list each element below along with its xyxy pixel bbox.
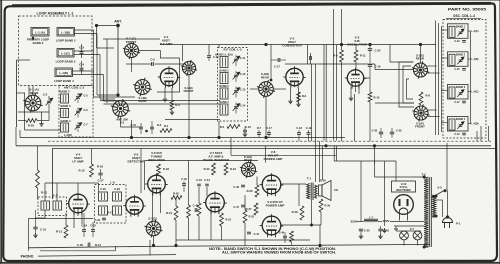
svg-text:C-27: C-27 (97, 179, 104, 183)
wire S-1E to osc coil (428, 65, 437, 67)
svg-text:C-46: C-46 (233, 185, 239, 189)
trimmer C-5 (76, 96, 80, 98)
svg-text:I.F AMP: I.F AMP (72, 160, 83, 164)
svg-text:R-30: R-30 (325, 204, 331, 208)
coil L-5 cells (41, 201, 50, 210)
svg-text:R-12: R-12 (41, 191, 48, 195)
svg-text:R-4: R-4 (164, 124, 169, 128)
switch wafer S-1(B) rear (135, 80, 150, 95)
coil L-1(D) (55, 68, 73, 77)
svg-text:R-27: R-27 (246, 207, 252, 211)
transformer T-1 secondary (315, 185, 317, 198)
capacitor C-17 (277, 58, 279, 62)
tube V-1 (RF amplifier) (160, 68, 177, 85)
coil L-3(D) (220, 104, 228, 115)
svg-text:BAND 3: BAND 3 (456, 86, 466, 89)
svg-text:R-9: R-9 (333, 54, 338, 58)
svg-text:BAND 2: BAND 2 (33, 41, 44, 45)
svg-text:PHASE INVERTER: PHASE INVERTER (203, 158, 230, 162)
capacitor C-18 (309, 56, 311, 60)
junction dots on buses (117, 94, 119, 96)
switch wafer S-1(A) (25, 95, 41, 111)
coil L-1(C) (57, 49, 74, 58)
power plug P-1 (443, 218, 453, 223)
wire 230V run (394, 225, 424, 227)
wire V-2 grid line (285, 63, 375, 65)
trimmer C-14 (234, 106, 238, 108)
pilot lamp PL-1 (400, 231, 409, 240)
svg-text:R-25: R-25 (28, 124, 35, 128)
resistor R-9 (340, 50, 344, 62)
wire S-1A bottom runs (18, 111, 49, 113)
svg-text:C-29: C-29 (454, 133, 460, 136)
svg-text:R-5: R-5 (220, 125, 225, 129)
tube V-8 (power amp) (262, 175, 281, 194)
svg-text:D-7: D-7 (410, 228, 415, 231)
svg-text:R-26: R-26 (247, 189, 253, 193)
svg-text:L-1(B): L-1(B) (61, 30, 70, 34)
svg-text:BAND 4: BAND 4 (456, 118, 466, 121)
svg-text:R-3: R-3 (175, 103, 180, 107)
resistor R-23 (212, 163, 216, 175)
tube V-6 (tuning eye) (148, 175, 166, 193)
svg-text:REAR: REAR (139, 99, 147, 103)
svg-text:CONVERTER: CONVERTER (282, 44, 302, 48)
if stage box (53, 149, 498, 200)
wire bus to power feed run (230, 138, 232, 156)
resistor R-27 (254, 203, 258, 215)
svg-text:L-1 (A): L-1 (A) (35, 30, 45, 34)
svg-text:C-32: C-32 (95, 219, 101, 222)
wire phono line (38, 255, 176, 257)
svg-text:C-18: C-18 (296, 126, 302, 130)
capacitor C-46 (241, 184, 245, 186)
resistor R-15 (90, 164, 94, 177)
switch wafer S-1(H) (242, 163, 256, 177)
wire V-7 bottom (210, 212, 212, 240)
wire B+ verticals (319, 141, 321, 182)
trimmer C-12 (234, 74, 238, 76)
wire converter B+ verticals (311, 64, 313, 141)
svg-text:FRONT: FRONT (415, 125, 425, 129)
wire osc coil feed verticals (435, 21, 437, 136)
tube V-7 (AF amp / phase inverter) (206, 193, 225, 212)
tube V-9 (power amp) (262, 216, 281, 235)
wire osc coupling (364, 77, 370, 79)
switch wafer S-1(F) (414, 106, 428, 120)
resistor R-8 (419, 92, 423, 105)
wire antenna feed (96, 26, 98, 49)
svg-text:POWER AMP: POWER AMP (266, 203, 285, 207)
svg-text:R.F COIL L-3: R.F COIL L-3 (223, 48, 241, 52)
capacitors on right mid bus (379, 131, 383, 133)
switch wafer S-1(G) lower (146, 221, 161, 236)
resistor R-20 (171, 196, 182, 200)
wire detector drops (140, 149, 142, 194)
svg-text:BAND 3: BAND 3 (60, 104, 71, 108)
svg-text:C-6: C-6 (83, 108, 88, 112)
node bus verticals from loop (93, 30, 95, 97)
svg-text:L-2(D): L-2(D) (64, 133, 72, 137)
svg-text:C-29: C-29 (114, 187, 120, 191)
resistor R-5 below rf box (227, 125, 240, 129)
svg-text:CH: CH (334, 188, 338, 192)
svg-text:C-36: C-36 (77, 243, 83, 247)
resistor R-12 left (36, 170, 40, 188)
svg-text:BAND 4: BAND 4 (219, 101, 229, 104)
coil L-4(C) band 3 cell (448, 85, 469, 100)
tube V-10 (rectifier) (394, 195, 414, 215)
coil L-3(C) (220, 88, 228, 99)
svg-text:C-31: C-31 (40, 228, 47, 232)
svg-text:DETECTOR: DETECTOR (128, 160, 146, 164)
resistor below C-44 (206, 187, 208, 196)
trimmer C-11 (234, 58, 238, 60)
svg-text:BAND 1 L-3(A): BAND 1 L-3(A) (215, 53, 232, 56)
svg-text:C-41: C-41 (254, 232, 260, 236)
svg-text:BAND 2: BAND 2 (219, 69, 229, 72)
svg-text:S-3: S-3 (437, 186, 442, 190)
tube V-4 (IF amplifier) (69, 194, 88, 213)
switch wafer S-1(C) (125, 44, 139, 58)
wire mid bus upper (20, 137, 345, 139)
svg-text:R-28: R-28 (292, 210, 298, 214)
svg-text:C-5: C-5 (83, 94, 88, 98)
switch S-3 (434, 191, 445, 197)
wire V-4 pins down (73, 212, 75, 228)
pilot lamp PL-2 (413, 231, 422, 240)
coil L-4(D) band 4 cell (448, 117, 469, 132)
svg-text:L-4(D): L-4(D) (472, 123, 479, 126)
coil L-2(A) (61, 94, 69, 103)
svg-text:C-25: C-25 (454, 68, 460, 71)
svg-text:R-29: R-29 (320, 179, 326, 183)
resistor R-26 (255, 185, 259, 197)
svg-text:230V: 230V (382, 219, 389, 223)
capacitor C-41 (247, 231, 251, 233)
transformer T-2 primary winding (424, 177, 428, 247)
svg-text:C-12: C-12 (240, 72, 246, 76)
if transformer L-6 dashed box (95, 185, 127, 224)
svg-text:C-17: C-17 (266, 126, 272, 130)
svg-text:BAND 3: BAND 3 (219, 85, 229, 88)
wire mid bus left drop (15, 127, 17, 146)
svg-text:R-21: R-21 (226, 218, 232, 222)
resistor R-13 (64, 225, 68, 238)
capacitor C-20 (368, 48, 372, 50)
svg-text:REAR: REAR (30, 91, 39, 95)
wire loop box to S-1A (32, 86, 34, 96)
svg-text:250V: 250V (350, 220, 357, 224)
coil L-6 primary (99, 192, 108, 201)
wire V-4 plate circuit (45, 182, 99, 184)
component cluster mid C-14/C-15 (139, 126, 143, 128)
switch wafer S-1 front upper (182, 61, 195, 74)
resistor R-25 (26, 119, 37, 123)
tube V-5 (detector) (126, 197, 143, 214)
svg-text:T-1: T-1 (307, 177, 312, 181)
svg-text:R-14: R-14 (95, 243, 101, 247)
svg-text:C-27: C-27 (454, 101, 460, 104)
scan edge shading left (0, 0, 2, 264)
trimmer C-6 (76, 110, 80, 112)
wire band taps to rf coil (100, 100, 220, 102)
wire S-1C to V-1 (139, 50, 161, 52)
switch wafer S-1(D) (259, 82, 274, 97)
tube V-10 label box (392, 181, 416, 192)
svg-text:R-20: R-20 (173, 192, 179, 196)
wire V-6 down (152, 193, 154, 221)
wire right edge drop (488, 126, 490, 141)
transformer T-1 core (310, 183, 312, 201)
wire cluster above S-2 (94, 96, 114, 98)
ground S-1A (41, 122, 43, 124)
wire S-2 bottom link (120, 117, 122, 128)
svg-text:BAND 2: BAND 2 (59, 89, 70, 93)
wire lamps bottom (403, 240, 405, 246)
wire osc cells right bus (470, 31, 472, 124)
wire V-2 cathode (290, 88, 292, 99)
svg-text:RECTIFIER: RECTIFIER (396, 188, 410, 192)
svg-text:ALL SWITCH WAFERS VIEWED FROM: ALL SWITCH WAFERS VIEWED FROM KNOB END O… (222, 251, 336, 255)
svg-text:C-16: C-16 (245, 125, 251, 129)
capacitor C-19 (368, 64, 372, 66)
wire power feed from bus (333, 146, 335, 161)
svg-text:ANT.: ANT. (114, 20, 122, 24)
svg-text:R-13: R-13 (56, 230, 63, 234)
wire avc return (29, 218, 94, 220)
capacitor C-47 (241, 204, 245, 206)
resistor R-10 (368, 92, 372, 102)
svg-text:C-48: C-48 (372, 130, 378, 133)
svg-text:C-47: C-47 (233, 205, 239, 209)
svg-text:R-8: R-8 (426, 94, 431, 98)
wire V-1 plate loop (157, 58, 180, 92)
wire T-1 bottom lead (311, 200, 313, 225)
wire S-1A drop (24, 93, 26, 130)
wire T-2 top feed (375, 176, 425, 178)
coil L-1(B) (57, 28, 75, 37)
svg-text:FRONT: FRONT (184, 89, 194, 93)
svg-text:R-24: R-24 (230, 167, 236, 171)
coil L-4(B) band 2 cell (448, 52, 469, 67)
svg-text:BAND 2: BAND 2 (456, 53, 466, 56)
svg-text:LOOP BAND 3: LOOP BAND 3 (56, 60, 76, 64)
resistor R-18 (157, 164, 161, 175)
wire upper run y39 (103, 38, 160, 40)
svg-text:OSC. COIL L-4: OSC. COIL L-4 (453, 14, 475, 18)
wire drops to mid bus (164, 110, 166, 138)
capacitor C-9 (151, 62, 153, 66)
capacitor C-10 (208, 45, 210, 56)
svg-text:L-4(B): L-4(B) (472, 58, 479, 61)
wire drop x182 (182, 45, 184, 62)
wire right column drops (446, 143, 448, 191)
svg-text:REAR: REAR (416, 57, 424, 61)
wire phono up right (149, 240, 151, 256)
wire bottom bus (29, 244, 431, 247)
svg-text:R-23: R-23 (204, 167, 210, 171)
trimmer C-13 (234, 90, 238, 92)
wire v1 to rf box bottom (165, 119, 220, 121)
svg-text:P-1: P-1 (456, 222, 461, 226)
capacitor C-51 (378, 228, 382, 230)
wire S-1E top (420, 45, 422, 64)
border frame top thick edge (12, 3, 491, 5)
wire mid bus dashed (48, 140, 491, 142)
wire L-1(A) pin (32, 36, 34, 39)
if transformer L-5 dashed box (38, 197, 67, 216)
tube V-2 (converter) (286, 68, 303, 85)
svg-text:S-2: S-2 (120, 121, 125, 125)
switch wafer S-2 (ant sw) (113, 101, 129, 117)
rf coil L-3 dashed box (218, 48, 248, 122)
svg-text:C-19: C-19 (306, 126, 312, 130)
capacitor C-31 (33, 226, 37, 228)
svg-text:C-13: C-13 (240, 88, 246, 92)
wire push-pull vertical (298, 184, 300, 206)
svg-text:POWER AMP: POWER AMP (264, 157, 283, 161)
wire bottom bus2 (176, 239, 310, 241)
osc coil L-4 dashed box (443, 20, 486, 139)
wire V-8 V-9 plates (281, 183, 306, 185)
wire mid verticals long (323, 45, 325, 141)
wire osc cells left taps (442, 29, 448, 31)
svg-text:BAND 4: BAND 4 (60, 119, 71, 123)
scan edge shading bottom (0, 262, 500, 264)
coil L-1(A) (31, 28, 49, 37)
resistor R-21 (220, 213, 224, 226)
svg-text:R-15: R-15 (78, 169, 85, 173)
wire feed drops (360, 161, 362, 222)
transformer T-1 primary (307, 184, 310, 200)
wire plug feed (447, 191, 449, 218)
resistor R-24 (224, 163, 228, 175)
wire V-3 cathode (350, 87, 352, 97)
trimmer C-7 (76, 125, 80, 127)
svg-text:REAR: REAR (261, 75, 269, 79)
svg-text:C-14: C-14 (240, 104, 246, 108)
svg-text:INDICATOR: INDICATOR (148, 158, 165, 162)
wire speaker leads (316, 186, 319, 188)
loop assembly L-1 dashed box (19, 16, 93, 86)
svg-text:C-45: C-45 (193, 204, 199, 208)
svg-text:R-17: R-17 (107, 211, 113, 215)
svg-text:C-7: C-7 (83, 123, 88, 127)
svg-text:C-49: C-49 (279, 232, 285, 235)
wire mid bus lower (16, 145, 491, 147)
wire nested loops left of S-1E (399, 62, 414, 107)
wire V-1 cathode parts (164, 88, 166, 97)
svg-text:C-19: C-19 (375, 65, 381, 69)
svg-text:C-43: C-43 (196, 178, 202, 182)
capacitor C-27 (98, 172, 102, 174)
svg-text:OSCILLATOR: OSCILLATOR (347, 43, 368, 47)
svg-text:R-11: R-11 (360, 54, 366, 58)
svg-text:D-6: D-6 (394, 228, 399, 231)
wire left edge vertical (16, 60, 18, 127)
coil L-6 lower cells (99, 206, 108, 215)
coil L-2(C) (61, 123, 69, 132)
svg-text:LOOP BAND 4: LOOP BAND 4 (54, 79, 74, 83)
svg-text:LOOP BAND 2: LOOP BAND 2 (56, 39, 76, 43)
svg-text:C-20: C-20 (375, 49, 381, 53)
svg-text:R-6: R-6 (302, 94, 307, 98)
svg-text:BAND 1: BAND 1 (456, 25, 466, 28)
coil L-3(B) (220, 73, 228, 84)
svg-text:L-1(C): L-1(C) (61, 51, 70, 55)
svg-text:L-6: L-6 (110, 181, 115, 185)
svg-text:L-1(D): L-1(D) (59, 71, 68, 75)
svg-text:R-10: R-10 (374, 96, 380, 100)
wire picket drops (188, 161, 190, 206)
svg-text:ANT. COIL L-2: ANT. COIL L-2 (64, 86, 85, 90)
wire osc to switch ladder (375, 69, 413, 71)
wire drop x307 (307, 45, 309, 65)
capacitor C-50 (359, 228, 363, 230)
V-9 cathode RC (283, 235, 287, 237)
svg-text:LOOP ASSEMBLY L-1: LOOP ASSEMBLY L-1 (37, 12, 74, 16)
wire across detector (145, 160, 259, 162)
wire S-1G down (153, 236, 155, 246)
svg-text:R-16: R-16 (97, 165, 104, 169)
wire top bus y44 (160, 44, 436, 46)
coil L-6 secondary (113, 192, 122, 201)
svg-text:C-49: C-49 (396, 130, 402, 133)
wire drop x219 (218, 45, 220, 48)
resistor R-30 (319, 199, 323, 212)
svg-text:C-44: C-44 (204, 178, 210, 182)
wire right edge drop (480, 126, 482, 141)
switch wafer S-1(E) (414, 63, 428, 77)
wire drop x271 (270, 45, 272, 81)
svg-text:C-30: C-30 (100, 187, 106, 191)
svg-text:R-2: R-2 (157, 123, 162, 127)
svg-text:C-23: C-23 (454, 40, 460, 43)
resistor R-11 (354, 50, 358, 62)
coil L-2(B) (61, 109, 69, 118)
svg-text:C-2: C-2 (43, 93, 48, 97)
resistor R-28 (300, 206, 304, 220)
transformer T-2 core (428, 177, 430, 247)
svg-text:C-9: C-9 (150, 58, 155, 62)
resistor below C-43 (198, 187, 200, 203)
capacitor C-32 (102, 217, 106, 219)
tube V-3 (oscillator) (347, 70, 363, 86)
svg-text:PHONO: PHONO (21, 254, 34, 258)
svg-text:R-18: R-18 (163, 167, 169, 171)
coil L-3(A) (220, 57, 228, 68)
svg-text:R-7: R-7 (257, 126, 262, 130)
ant coil L-2 dashed box (59, 86, 93, 138)
resistor R-22 (243, 210, 247, 223)
wire loop box to bus (75, 29, 94, 31)
svg-text:C-17: C-17 (274, 65, 280, 69)
wire S-1D to V-2 (274, 88, 287, 90)
svg-text:PART NO. 95005: PART NO. 95005 (448, 7, 487, 12)
speaker CH (319, 185, 323, 196)
transformer T-2 secondary windings (432, 195, 436, 217)
svg-text:R-19: R-19 (166, 211, 172, 215)
svg-text:R-22: R-22 (249, 215, 255, 219)
resistor R-19 (174, 206, 178, 220)
wire V-3 to bus (354, 94, 356, 141)
svg-text:L-4(A): L-4(A) (472, 30, 479, 33)
svg-text:C-42: C-42 (181, 177, 187, 181)
filter choke L-7 (364, 219, 378, 221)
trimmer C-2 (47, 100, 51, 102)
svg-text:C-11: C-11 (240, 56, 246, 60)
